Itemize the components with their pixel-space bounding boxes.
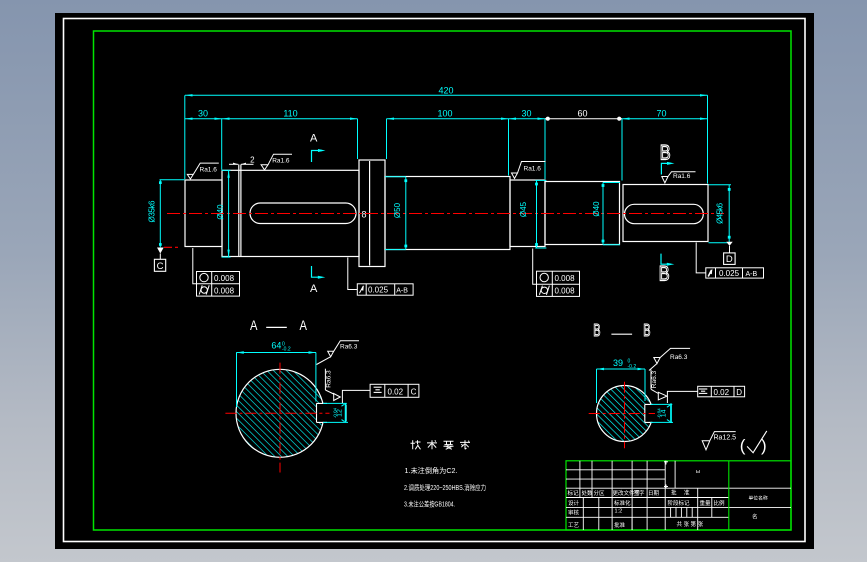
ext line x386.5 <box>386 119 388 159</box>
datum C symbol <box>154 248 165 272</box>
section mark A bottom <box>310 266 325 295</box>
centering marks <box>664 461 668 463</box>
svg-text:100: 100 <box>437 109 452 119</box>
diameter dim arrows <box>227 170 229 257</box>
svg-text:A: A <box>300 318 308 333</box>
svg-text:名: 名 <box>752 513 758 521</box>
svg-text:Ø45: Ø45 <box>519 201 528 217</box>
title block outer frame <box>566 461 791 530</box>
svg-text:0.008: 0.008 <box>214 286 235 295</box>
svg-text:工艺: 工艺 <box>568 522 580 529</box>
svg-text:Ø40: Ø40 <box>592 201 601 217</box>
section mark B bottom <box>659 254 675 287</box>
section mark B top <box>660 142 675 175</box>
title B-B <box>593 322 650 341</box>
svg-text:2: 2 <box>250 156 255 165</box>
svg-text:110: 110 <box>283 109 297 119</box>
collar inner line <box>369 161 371 266</box>
FCF center (circularity/cylindricity 0.008) <box>533 249 580 297</box>
svg-text:Ra1.6: Ra1.6 <box>524 165 542 172</box>
svg-text:0.025: 0.025 <box>719 269 740 278</box>
datum D symbol <box>724 242 736 265</box>
svg-text:批准: 批准 <box>614 521 626 529</box>
general roughness note Ra12.5 <box>702 432 736 450</box>
dim 12 A-A keyway <box>323 403 348 422</box>
roughness flag B-B top <box>649 348 690 370</box>
hatch A-A <box>230 363 350 464</box>
dim 60 white line with dot terminators <box>545 118 622 120</box>
ext line x545 <box>544 119 546 179</box>
title block grid <box>566 461 791 530</box>
shaft section S1 (left end, 30 long) <box>185 180 222 247</box>
dim phi35k6 line <box>159 180 161 248</box>
roughness flag B-B side (rotated) <box>651 370 667 400</box>
svg-text:A: A <box>310 133 318 145</box>
svg-text:-0.2: -0.2 <box>628 364 637 370</box>
svg-text:C: C <box>157 261 164 272</box>
svg-text:Ra6.3: Ra6.3 <box>340 344 358 351</box>
circle B-B <box>597 386 653 442</box>
dim phi45k6 S6 line <box>728 185 730 243</box>
svg-text:日期: 日期 <box>648 490 660 497</box>
hatch B-B <box>590 380 680 450</box>
dim 64 A-A <box>236 353 316 408</box>
title block green vertical <box>728 461 730 530</box>
svg-text:30: 30 <box>521 109 531 119</box>
svg-text:0.02: 0.02 <box>388 387 404 396</box>
svg-text:比例: 比例 <box>714 499 726 507</box>
svg-text:标记: 标记 <box>568 489 580 497</box>
dim row line 100 <box>387 118 509 120</box>
svg-text:D: D <box>736 388 742 397</box>
svg-text:-0.2: -0.2 <box>282 346 291 352</box>
dimension 420 line <box>185 94 708 96</box>
roughness flag A-A side (rotated) <box>325 369 340 401</box>
ext line left x185 <box>184 95 186 179</box>
ext line x222 <box>221 119 223 170</box>
roughness flag S1 <box>187 163 219 179</box>
svg-text:2.调质处理220~250HBS.消除应力: 2.调质处理220~250HBS.消除应力 <box>404 483 486 492</box>
section mark A top <box>310 133 326 163</box>
dim phi40 S2 line <box>228 170 230 257</box>
svg-text:Ra1.6: Ra1.6 <box>272 157 290 164</box>
roughness flag A-A top <box>317 341 360 365</box>
keyway B-B (slot erases hatch+arc) <box>645 405 672 422</box>
svg-text:设计: 设计 <box>568 499 580 507</box>
dim row line 30 <box>185 118 222 120</box>
dim row line 70 <box>622 118 708 120</box>
svg-text:0.008: 0.008 <box>555 287 576 296</box>
ext line x508.5 <box>508 119 510 176</box>
shaft section S4 (30 long) <box>510 180 545 247</box>
svg-text:A: A <box>250 318 258 333</box>
svg-text:C: C <box>411 387 417 396</box>
svg-text:8: 8 <box>361 210 366 220</box>
svg-text:A-B: A-B <box>746 271 758 278</box>
svg-text:签字: 签字 <box>634 489 646 497</box>
FCF S6 (runout 0.025 A-B) <box>696 243 763 279</box>
svg-text:39: 39 <box>613 358 623 368</box>
dim row line 110 <box>222 118 358 120</box>
svg-text:30: 30 <box>198 109 208 119</box>
svg-text:64: 64 <box>271 341 281 351</box>
svg-text:Ra1.6: Ra1.6 <box>200 167 218 174</box>
white paper border frame <box>64 19 806 542</box>
svg-text:标准化: 标准化 <box>614 499 631 507</box>
svg-text:0.025: 0.025 <box>368 286 389 295</box>
dim row line 30b <box>509 118 546 120</box>
roughness flag S6 <box>662 172 696 183</box>
dim phi50 S3 line <box>405 177 407 249</box>
svg-text:ы: ы <box>696 469 700 475</box>
title A-A <box>250 318 307 333</box>
shaft section S5 (60 long) <box>545 182 620 245</box>
svg-text:420: 420 <box>438 86 453 96</box>
keyway slot in S2 <box>250 203 356 224</box>
svg-text:处数: 处数 <box>582 489 594 497</box>
dim phi40 S5 line <box>602 183 604 245</box>
red tick at S1 bottom <box>164 246 181 248</box>
svg-text:分区: 分区 <box>594 489 606 497</box>
svg-text:B: B <box>660 142 671 166</box>
main centerline <box>167 213 724 215</box>
svg-text:A-B: A-B <box>396 287 408 294</box>
svg-text:1.未注倒角为C2.: 1.未注倒角为C2. <box>405 466 458 475</box>
svg-text:阶段标记: 阶段标记 <box>668 499 691 507</box>
svg-text:Ø40: Ø40 <box>216 204 225 220</box>
collar (shoulder) <box>359 160 385 267</box>
FCF A-A (symmetry 0.02 C) <box>342 384 419 403</box>
roughness flag S4 <box>512 162 546 179</box>
svg-text:B: B <box>659 263 670 287</box>
green drawing frame <box>94 31 792 530</box>
svg-text:0.008: 0.008 <box>214 274 235 283</box>
svg-text:14: 14 <box>661 409 668 417</box>
svg-text:单位名称: 单位名称 <box>749 495 768 502</box>
svg-text:Ø35k6: Ø35k6 <box>148 200 157 223</box>
svg-text:Ra12.5: Ra12.5 <box>714 434 737 441</box>
svg-text:Ø45k6: Ø45k6 <box>716 202 725 224</box>
circle A-A <box>236 369 324 457</box>
shaft section S6 (right end, 70 long) <box>623 185 708 242</box>
svg-text:-0.04: -0.04 <box>333 407 338 418</box>
svg-text:Ra6.3: Ra6.3 <box>670 354 688 361</box>
svg-text:批: 批 <box>671 489 677 497</box>
roughness flag S2 <box>261 154 292 170</box>
keyway A-A (slot erases hatch+arc) <box>317 404 347 422</box>
svg-text:B: B <box>593 322 600 341</box>
svg-text:70: 70 <box>656 109 666 119</box>
dim texts <box>198 86 667 119</box>
FCF collar (runout 0.025 A-B) <box>348 258 413 296</box>
svg-text:Ø50: Ø50 <box>393 202 402 218</box>
svg-text:-0.04: -0.04 <box>657 408 662 419</box>
dim arrows top <box>185 94 708 120</box>
svg-text:60: 60 <box>577 108 587 118</box>
svg-text:A: A <box>310 283 318 295</box>
shaft section S2 (keyway section, 110 long) <box>222 170 359 256</box>
svg-text:审核: 审核 <box>568 509 580 517</box>
ext line right x707.5 <box>707 95 709 183</box>
svg-text:0.008: 0.008 <box>555 274 576 283</box>
svg-text:重量: 重量 <box>700 499 712 507</box>
relief groove lines in S2 <box>238 165 240 257</box>
FCF B-B (symmetry 0.02 D) <box>667 386 744 403</box>
dim 2 groove line (white layer) <box>229 163 254 165</box>
svg-text:B: B <box>643 322 650 341</box>
svg-text:Ra6.3: Ra6.3 <box>651 370 658 388</box>
svg-text:Ra6.3: Ra6.3 <box>326 370 333 388</box>
centerlines A-A <box>225 412 329 414</box>
svg-text:(: ( <box>740 436 746 455</box>
svg-text:D: D <box>726 254 733 265</box>
svg-text:准: 准 <box>684 489 690 497</box>
svg-text:共 张 第 张: 共 张 第 张 <box>677 520 704 528</box>
svg-text:1:2: 1:2 <box>615 509 623 515</box>
diameter dim dot terminators <box>159 179 731 247</box>
keyway slot in S6 <box>625 204 704 223</box>
diameter dim texts (rotated) <box>148 200 725 224</box>
dim phi45 S4 line <box>536 180 538 248</box>
centerlines B-B <box>589 413 655 415</box>
FCF left (circularity/cylindricity 0.008) <box>193 248 240 296</box>
dim 39 B-B <box>597 369 646 403</box>
ext line x357.5 <box>357 119 359 159</box>
ext line x622 <box>621 119 623 181</box>
title block texts <box>568 469 768 529</box>
svg-text:Ra1.6: Ra1.6 <box>673 173 691 180</box>
dim 14 B-B keyway <box>651 403 674 423</box>
svg-text:3.未注公差按GB1804.: 3.未注公差按GB1804. <box>404 499 455 508</box>
shaft section S3 (100 long) <box>385 177 510 250</box>
svg-text:0.02: 0.02 <box>714 388 730 397</box>
note heading (ji shu yao qiu) <box>411 440 471 449</box>
svg-text:): ) <box>761 436 767 455</box>
svg-text:12: 12 <box>337 409 344 417</box>
